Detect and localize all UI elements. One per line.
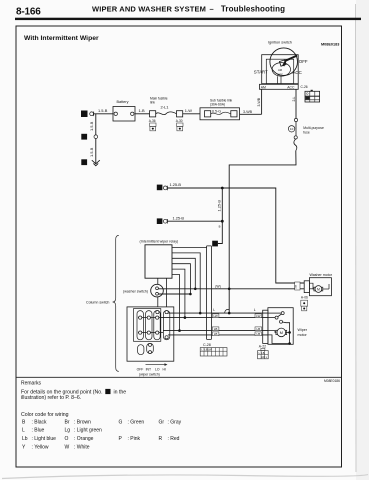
svg-text:1.25-B: 1.25-B: [170, 182, 182, 187]
ground point 1 (relay area): [212, 241, 218, 247]
wiper switch lower slots: [138, 343, 154, 354]
wire label 1.5-B vertical upper: [89, 121, 94, 131]
svg-text:R: R: [159, 436, 163, 442]
ground point 3 (mid): [81, 134, 87, 140]
wire down to ground point 1 near C-28: [218, 221, 222, 243]
wiper switch inner frame: [134, 309, 161, 342]
connector mid: [94, 135, 98, 139]
boxed label LB upper left: [212, 327, 219, 331]
color code row 1: [22, 419, 182, 425]
svg-text:: Blue: : Blue: [32, 428, 45, 434]
wire 2 1.25-B: [168, 215, 223, 221]
main fusible link connector A-36: [149, 111, 156, 123]
connector at battery negative: [90, 112, 94, 117]
column switch label: [86, 301, 109, 305]
boxed label LW left: [212, 314, 219, 318]
boxed label LB lower left: [212, 332, 219, 336]
wire label 1.5-B vertical lower: [89, 147, 94, 157]
relay wire e: [172, 269, 186, 319]
svg-text:Ignition switch: Ignition switch: [268, 41, 292, 45]
svg-text:: Light blue: : Light blue: [32, 436, 57, 442]
svg-text:1.25-B: 1.25-B: [217, 200, 222, 212]
svg-text:Lg: Lg: [65, 428, 71, 434]
svg-text:LB: LB: [256, 332, 260, 336]
svg-text:LB: LB: [214, 332, 218, 336]
ignition terminal row: [260, 84, 299, 89]
svg-text:M: M: [280, 330, 283, 335]
column switch brace: [113, 235, 119, 371]
svg-text:(W): (W): [215, 284, 220, 288]
svg-text:(wiper switch): (wiper switch): [139, 372, 160, 376]
svg-text:O: O: [65, 436, 69, 442]
svg-text:OFF: OFF: [137, 367, 144, 371]
svg-text:: Green: : Green: [128, 419, 145, 425]
svg-text:ACC: ACC: [287, 85, 295, 89]
svg-text:1.5-B: 1.5-B: [89, 147, 94, 157]
ground point 2: [81, 159, 87, 165]
wiper motor internal wires: [268, 313, 290, 343]
wire battery negative to ground: [94, 114, 114, 164]
svg-text:3-WB: 3-WB: [243, 110, 253, 114]
bus wire LB lower: [168, 334, 268, 336]
svg-text:INT: INT: [146, 367, 151, 371]
svg-text:1.5-B: 1.5-B: [89, 121, 94, 131]
svg-text:: Black: : Black: [32, 419, 48, 425]
remarks heading: [21, 381, 42, 387]
wiper motor junction dots: [288, 331, 291, 345]
color code row 3: [22, 436, 180, 442]
svg-text:: Light green: : Light green: [74, 428, 102, 434]
connector on wire 1: [163, 186, 167, 191]
svg-text:WIPER AND WASHER SYSTEM: WIPER AND WASHER SYSTEM: [92, 5, 206, 14]
ignition key symbol: [280, 55, 298, 67]
figure code bottom right: [324, 379, 340, 383]
connector icon A-36: [150, 123, 156, 131]
ground point 1 (battery top): [81, 111, 88, 118]
svg-text:: White: : White: [74, 444, 90, 450]
svg-text:Washer motor: Washer motor: [310, 273, 333, 277]
svg-text:A-06: A-06: [301, 295, 308, 299]
header title: [92, 5, 285, 14]
sub fusible link box: [200, 108, 240, 120]
multi-purpose fuse label: [303, 126, 324, 134]
wiper switch position labels: [137, 367, 166, 371]
intermittent wiper relay label: [140, 239, 179, 243]
relay wire b: [172, 253, 202, 315]
svg-text:ACC: ACC: [293, 70, 302, 75]
ignition switch body: [262, 48, 299, 84]
svg-text:Color code for wiring: Color code for wiring: [21, 412, 69, 418]
svg-text:: Brown: : Brown: [74, 419, 91, 425]
svg-text:C-26: C-26: [301, 85, 308, 89]
bus wire LW: [160, 317, 268, 319]
junction dot ACC on washer wire: [228, 288, 231, 291]
wiper switch contacts: [139, 311, 169, 339]
svg-text:1-B: 1-B: [139, 108, 145, 113]
ground point 7 (wire 2 source): [157, 218, 163, 224]
color code heading: [21, 412, 69, 418]
svg-text:M08E0186: M08E0186: [324, 379, 340, 383]
svg-text:Lb: Lb: [22, 436, 28, 442]
A-22 pin table: [258, 348, 269, 359]
wire ACC feed down to column switch: [229, 151, 296, 314]
remarks ground point icon 2: [105, 389, 110, 394]
svg-text:(washer switch): (washer switch): [123, 289, 148, 293]
washer motor connector: [304, 281, 309, 293]
svg-text:B: B: [219, 225, 221, 229]
washer switch lower wire: [158, 293, 190, 295]
svg-text:1.25-B: 1.25-B: [173, 215, 185, 220]
svg-text:HI: HI: [163, 367, 166, 371]
svg-text:L: L: [213, 308, 215, 312]
remarks divider: [16, 376, 342, 378]
wire battery to main fusible link: [135, 108, 150, 114]
wiper switch outer box: [127, 307, 174, 361]
svg-text:Br: Br: [65, 419, 70, 425]
washer switch feed wire to washer motor: [158, 288, 304, 290]
boxed label LB upper right: [255, 327, 262, 331]
svg-text:LW: LW: [256, 314, 260, 318]
svg-text:A-30: A-30: [176, 119, 183, 123]
main fusible link wire 2-L1: [156, 105, 177, 115]
svg-text:C-28: C-28: [203, 343, 211, 347]
remarks text: [21, 390, 126, 401]
washer switch label: [123, 289, 148, 293]
washer switch: [151, 284, 164, 297]
svg-text:fuse: fuse: [303, 131, 310, 135]
wiper motor M: [276, 328, 290, 337]
svg-text:With Intermittent Wiper: With Intermittent Wiper: [24, 35, 99, 42]
svg-text:10: 10: [290, 127, 294, 131]
svg-text:A-36: A-36: [149, 119, 156, 123]
vertical 1.25-B link wire: [217, 188, 223, 221]
svg-text:link: link: [150, 101, 155, 105]
svg-text:(30A·60A): (30A·60A): [210, 103, 225, 107]
svg-text:illustration) refer to P. 8–6.: illustration) refer to P. 8–6.: [21, 395, 81, 401]
svg-text:Gr: Gr: [159, 419, 165, 425]
junction dot wire1: [221, 187, 224, 190]
ignition switch tiny terminal letters: [277, 68, 283, 77]
svg-text:1.5-B: 1.5-B: [98, 108, 108, 113]
washer motor box: [309, 273, 332, 296]
wire to sub fusible link: [183, 108, 200, 114]
svg-text:8-166: 8-166: [16, 6, 41, 17]
svg-text:0.5-G: 0.5-G: [212, 109, 221, 113]
bus wire L: [168, 309, 268, 314]
svg-text:: Pink: : Pink: [128, 436, 141, 442]
wire label 1.5-B horizontal: [98, 108, 108, 113]
svg-text:ACC: ACC: [277, 73, 283, 77]
junction dot wire2: [221, 220, 224, 223]
wiper switch row line 2: [138, 332, 163, 334]
intermittent wiper relay box: [145, 245, 172, 278]
svg-text:–: –: [210, 5, 214, 14]
wiper switch contact slots: [137, 311, 170, 340]
main fusible link connector A-30: [176, 111, 183, 123]
C-28 pin table: [200, 348, 227, 356]
svg-text:AM: AM: [261, 85, 266, 89]
svg-text:Multi-purpose: Multi-purpose: [303, 126, 324, 130]
svg-text:3-WB: 3-WB: [257, 97, 261, 106]
wiper motor label: [298, 328, 308, 337]
svg-text:L: L: [254, 308, 256, 312]
svg-text:in the: in the: [114, 390, 127, 396]
header page number 8-166: [16, 6, 41, 17]
relay wire c: [172, 258, 197, 290]
svg-text:1-W: 1-W: [185, 108, 192, 113]
washer motor M: [309, 283, 329, 292]
boxed label LB lower right: [255, 332, 262, 336]
svg-text:2-L1: 2-L1: [161, 105, 170, 110]
color code row 2: [22, 428, 102, 434]
connector C-28 channel: [207, 246, 212, 340]
battery B1: [113, 100, 135, 121]
sub fusible link label: [210, 99, 233, 107]
wiper switch row line 1: [138, 317, 160, 319]
ground point 3 (wire 1 source): [157, 185, 163, 191]
boxed label LW right: [255, 314, 262, 318]
svg-text:OFF: OFF: [299, 59, 308, 64]
svg-text:L: L: [22, 428, 25, 434]
ignition position OFF: [299, 59, 308, 64]
connector C-26 label: [301, 85, 308, 89]
svg-text:M: M: [317, 287, 320, 291]
wire sub fusible link to ignition AM: [240, 89, 262, 114]
svg-text:G: G: [119, 419, 123, 425]
svg-text:LB: LB: [214, 327, 218, 331]
svg-text:motor: motor: [298, 333, 308, 337]
bus wire LB upper: [163, 330, 268, 332]
svg-text:Troubleshooting: Troubleshooting: [221, 5, 285, 14]
svg-text:Column switch: Column switch: [86, 301, 109, 305]
svg-text:: Yellow: : Yellow: [32, 444, 49, 450]
wire 1 1.25-B to wiper motor feed: [168, 182, 305, 283]
svg-text:LB: LB: [261, 352, 264, 355]
multi-purpose fuse: [288, 118, 297, 150]
header rule: [15, 18, 361, 20]
svg-text:A-22: A-22: [259, 345, 266, 349]
svg-text:2-L: 2-L: [292, 96, 296, 101]
wiper motor box: [268, 308, 293, 345]
relay wire f: [172, 275, 181, 332]
svg-text:LO: LO: [155, 367, 160, 371]
A-22 label: [259, 345, 266, 349]
relay wire d: [172, 264, 192, 296]
svg-text:Wiper: Wiper: [298, 328, 308, 332]
svg-text:LB: LB: [256, 327, 260, 331]
svg-text:: Gray: : Gray: [168, 419, 182, 425]
wiper switch caption: [139, 372, 160, 376]
svg-text:1: 1: [83, 112, 86, 117]
wiper switch position arrow: [146, 363, 168, 366]
connector A-22 bars: [263, 310, 268, 343]
relay wires to wiper switch top contacts: [158, 278, 167, 311]
ignition position START: [254, 69, 268, 74]
svg-text:Battery: Battery: [117, 100, 129, 104]
wiper motor park switch: [275, 312, 290, 344]
wire color label L left: [213, 308, 215, 312]
A-06 connector icon: [301, 300, 308, 311]
svg-text:: Red: : Red: [168, 436, 180, 442]
ignition switch label: [268, 41, 292, 45]
A-06 label: [301, 295, 308, 299]
washer motor inline label box: [293, 282, 300, 290]
svg-text:(Intermittent wiper relay): (Intermittent wiper relay): [140, 239, 179, 243]
ground symbol: [92, 160, 100, 166]
subtitle With Intermittent Wiper: [24, 35, 99, 42]
ignition position ACC: [293, 70, 302, 75]
relay wire a to C-28: [172, 247, 207, 249]
svg-text:Remarks: Remarks: [21, 381, 42, 387]
svg-text:1W: 1W: [293, 284, 297, 288]
svg-text:M08E0183: M08E0183: [321, 43, 339, 47]
svg-text:W: W: [65, 444, 70, 450]
wire ACC 2-L: [292, 89, 296, 118]
C-26 fuse location table: [305, 90, 320, 102]
connector on wire 2: [163, 219, 167, 224]
C-28 label: [203, 343, 211, 347]
figure code top right: [321, 43, 339, 47]
color code row 4: [22, 444, 90, 450]
main fusible link label: [150, 97, 168, 105]
svg-text:START: START: [254, 69, 268, 74]
wire color note (W): [215, 284, 220, 288]
svg-text:LW: LW: [213, 314, 217, 318]
wire color label L right: [254, 308, 256, 312]
connector icon A-30: [177, 123, 183, 131]
svg-text:: Orange: : Orange: [74, 436, 94, 442]
